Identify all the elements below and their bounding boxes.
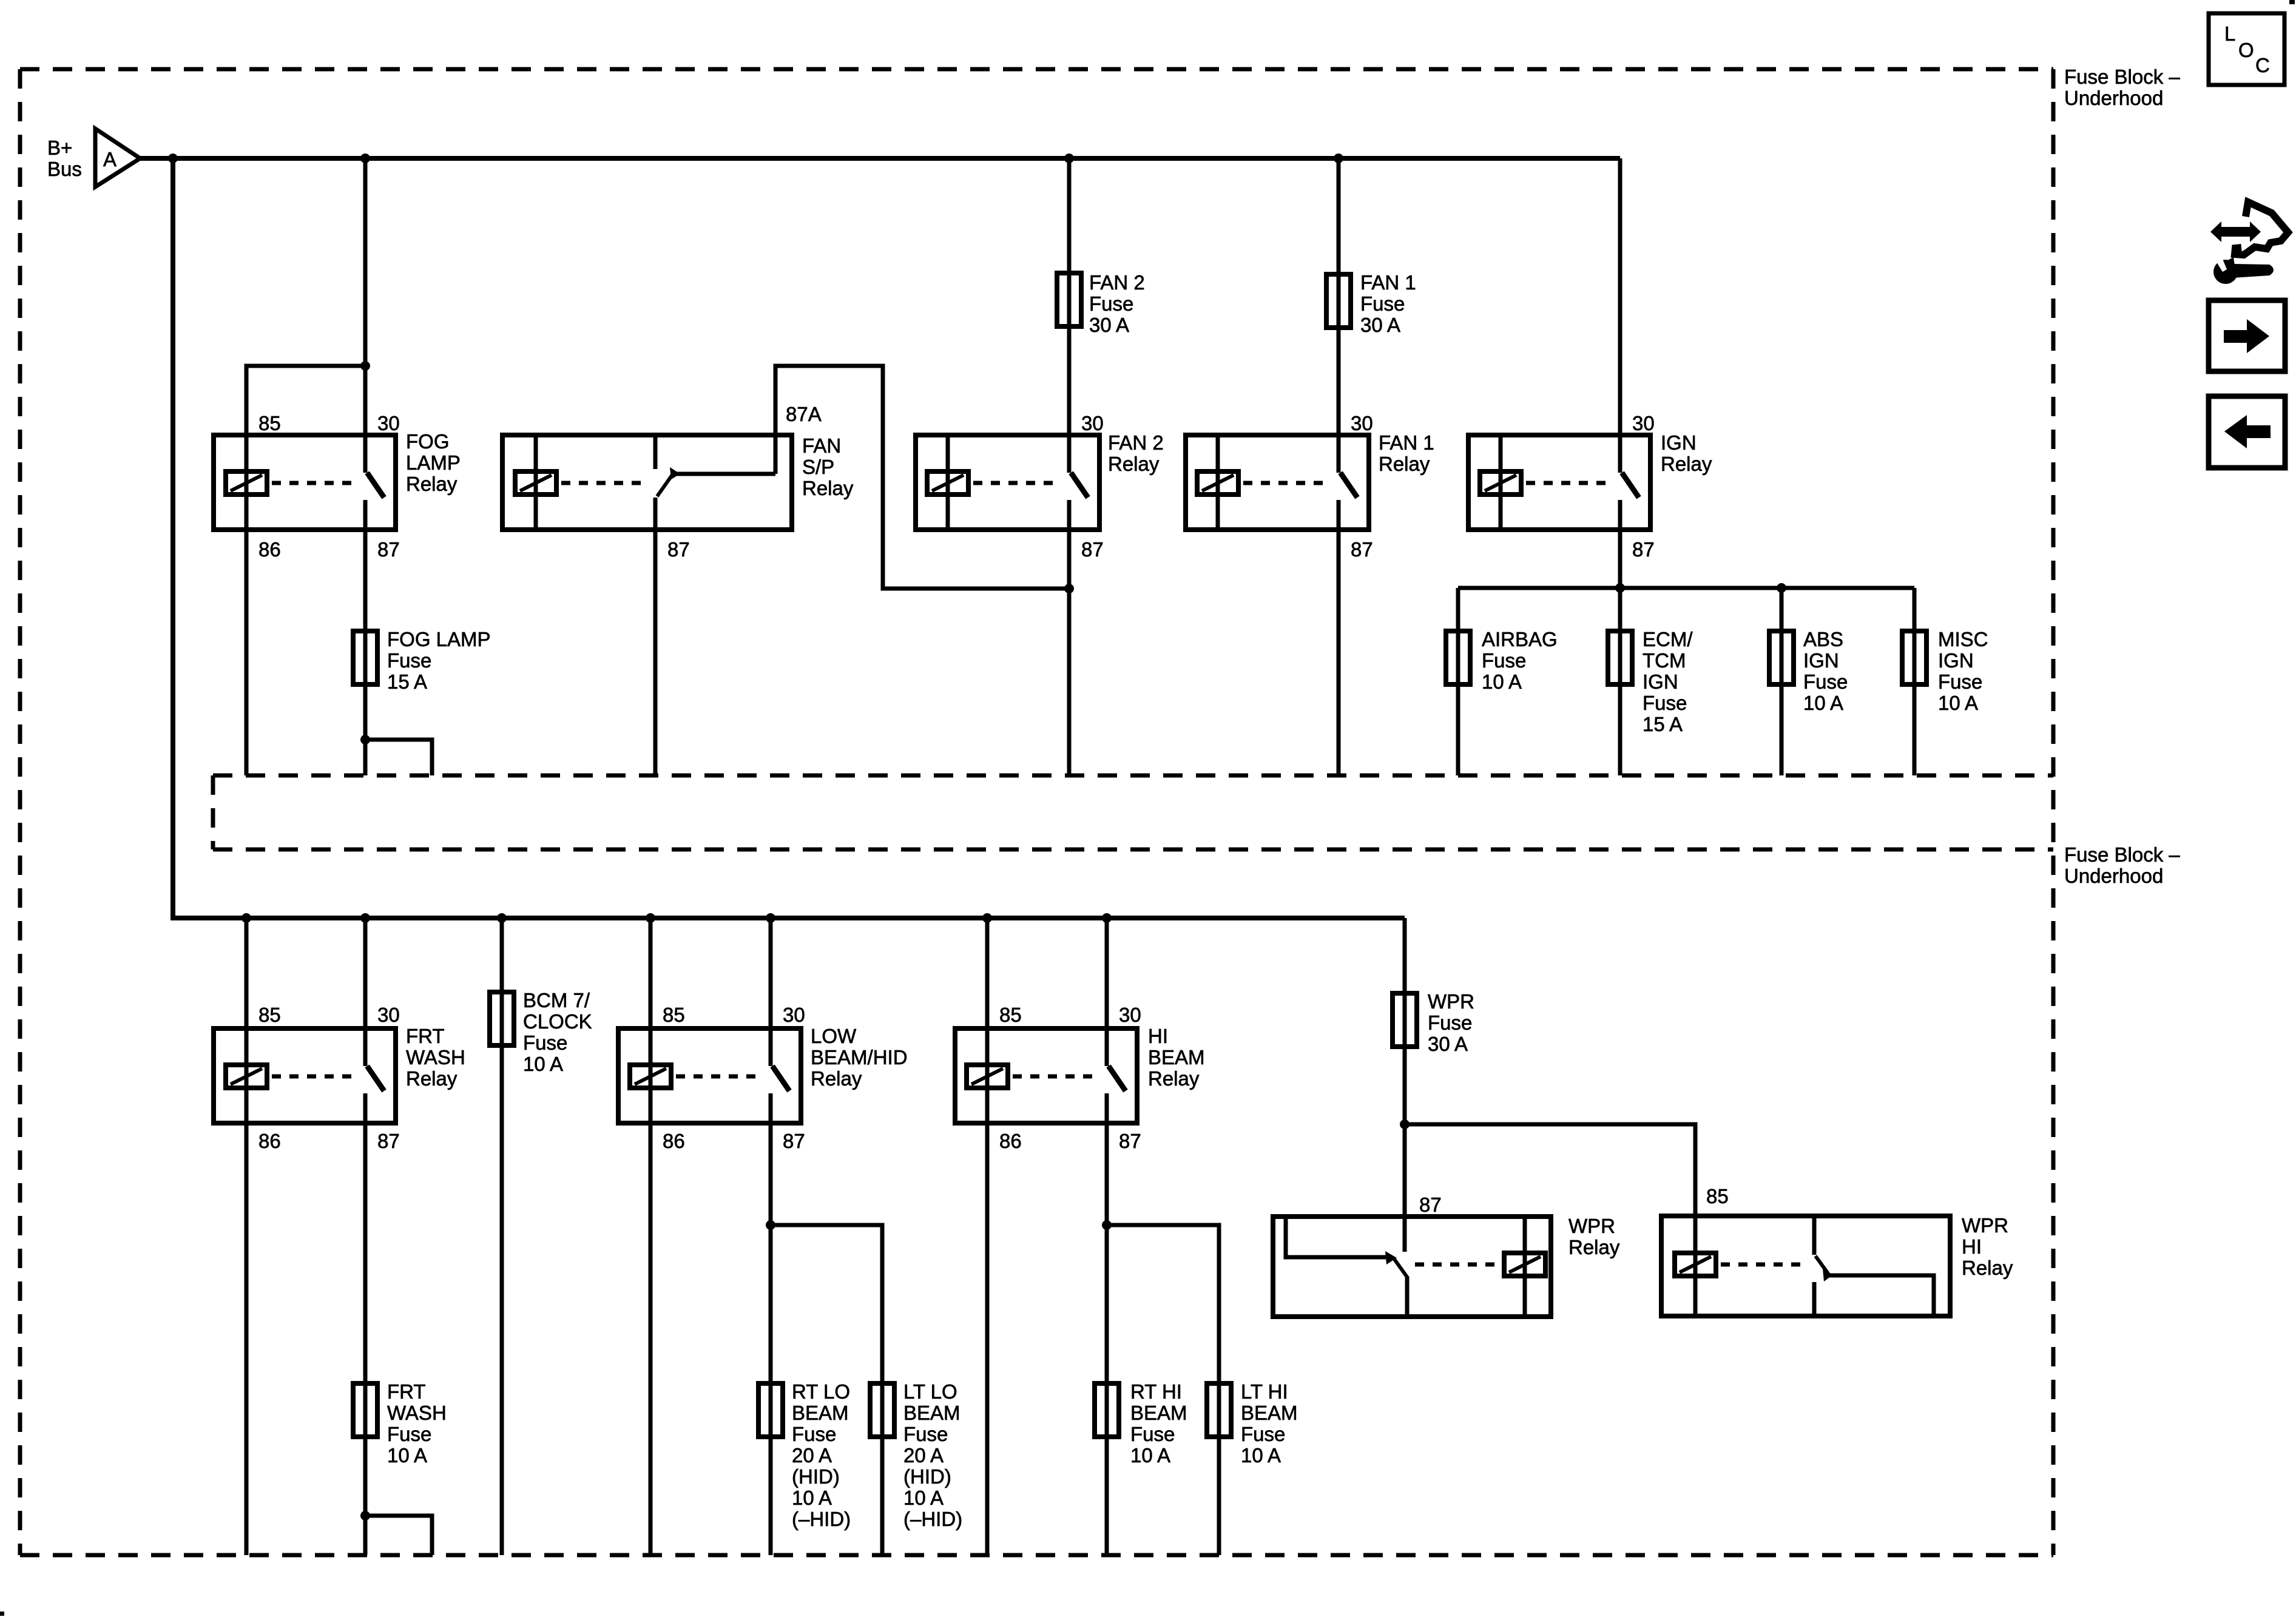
svg-text:BEAM: BEAM	[1241, 1402, 1298, 1424]
svg-text:10 A: 10 A	[903, 1487, 944, 1509]
svg-text:O: O	[2238, 39, 2254, 61]
svg-text:30: 30	[1351, 412, 1373, 434]
fuse WPR 30A	[1393, 993, 1417, 1047]
wire LOW pin85 drop	[649, 918, 653, 1028]
label FRT WASH Fuse 10 A	[387, 1380, 447, 1467]
label Fuse Block - Underhood (bottom)	[2064, 843, 2180, 887]
svg-text:Fuse: Fuse	[1089, 292, 1133, 315]
relay IGN	[1468, 435, 1650, 530]
node junction bus1-FAN2fuse	[1064, 154, 1074, 163]
svg-text:FRT: FRT	[406, 1025, 445, 1047]
node junction FRTWASH fuse out	[360, 1511, 370, 1521]
svg-text:30 A: 30 A	[1428, 1033, 1468, 1055]
wire FOG pin30 drop from bus	[363, 158, 368, 435]
relay FAN S/P	[502, 435, 792, 530]
svg-text:10 A: 10 A	[1803, 692, 1843, 714]
svg-text:Fuse Block –: Fuse Block –	[2064, 843, 2180, 866]
wire FRTWASH pin86 drop	[245, 1122, 249, 1555]
wire IGN pin30 drop from bus end	[1618, 158, 1622, 435]
fuse RT LO BEAM	[758, 1383, 783, 1437]
svg-text:10 A: 10 A	[387, 1444, 427, 1467]
fuse LT LO BEAM	[870, 1383, 894, 1437]
svg-text:IGN: IGN	[1938, 649, 1974, 672]
svg-text:ABS: ABS	[1803, 628, 1843, 650]
wire LOW pin87 drop	[769, 1122, 773, 1555]
wire FAN1 pin87 drop	[1337, 530, 1341, 775]
svg-text:Relay: Relay	[1962, 1257, 2013, 1279]
svg-text:BEAM: BEAM	[1130, 1402, 1187, 1424]
svg-text:85: 85	[258, 412, 281, 434]
svg-text:87: 87	[1081, 538, 1104, 561]
pin 87 FAN S/P	[667, 538, 690, 561]
svg-text:FRT: FRT	[387, 1380, 426, 1403]
svg-text:WPR: WPR	[1962, 1214, 2008, 1237]
pin 85 HI	[999, 1004, 1022, 1026]
power symbol B+ Bus triangle A	[47, 129, 140, 187]
wire FOG pin85 branch	[246, 366, 365, 435]
pin 87 FRTWASH	[377, 1130, 400, 1152]
node junction bus2-HI30	[1102, 913, 1112, 923]
svg-text:30: 30	[1081, 412, 1104, 434]
label RT HI BEAM Fuse 10 A	[1130, 1380, 1187, 1467]
svg-text:85: 85	[258, 1004, 281, 1026]
wire FOG pin87 drop	[363, 530, 368, 775]
pin 30 FRTWASH	[377, 1004, 400, 1026]
svg-text:86: 86	[999, 1130, 1022, 1152]
svg-text:AIRBAG: AIRBAG	[1482, 628, 1558, 650]
svg-text:85: 85	[999, 1004, 1022, 1026]
svg-text:30: 30	[783, 1004, 805, 1026]
label WPR HI Relay	[1962, 1214, 2013, 1279]
fuse BCM 7/CLOCK 10A	[490, 992, 514, 1045]
wire FAN S/P 87A loop	[775, 366, 1069, 589]
svg-text:Underhood: Underhood	[2064, 865, 2163, 887]
label ABS IGN Fuse 10 A	[1803, 628, 1848, 714]
fuse FRT WASH 10A	[353, 1383, 377, 1437]
svg-text:WASH: WASH	[387, 1402, 447, 1424]
label FRT WASH Relay	[406, 1025, 465, 1090]
wire MISC fuse drop	[1913, 588, 1917, 775]
svg-text:BCM 7/: BCM 7/	[523, 989, 590, 1011]
wire AIRBAG fuse drop	[1456, 588, 1460, 775]
svg-text:10 A: 10 A	[1241, 1444, 1281, 1467]
svg-text:Fuse: Fuse	[1360, 292, 1405, 315]
label LT LO BEAM Fuse	[903, 1380, 962, 1530]
svg-text:WASH: WASH	[406, 1046, 465, 1068]
svg-text:(–HID): (–HID)	[792, 1508, 851, 1530]
node junction FOG fuse out branch	[360, 735, 370, 744]
node junction bus1-FOG	[360, 154, 370, 163]
node junction bus2-BCMfuse	[497, 913, 507, 923]
svg-text:BEAM: BEAM	[1148, 1046, 1205, 1068]
svg-text:IGN: IGN	[1803, 649, 1839, 672]
svg-text:BEAM: BEAM	[903, 1402, 961, 1424]
label AIRBAG Fuse 10 A	[1482, 628, 1558, 693]
label Fuse Block - Underhood (top)	[2064, 66, 2180, 109]
pin 85 FOG	[258, 412, 281, 434]
wire HI pin30 drop	[1105, 918, 1109, 1028]
svg-text:TCM: TCM	[1643, 649, 1686, 672]
fuse LT HI BEAM 10A	[1207, 1383, 1231, 1437]
pin 87 HI	[1119, 1130, 1141, 1152]
svg-text:(HID): (HID)	[903, 1465, 951, 1488]
node junction bus2-FRTWASH30	[360, 913, 370, 923]
label FAN 2 Fuse 30 A	[1089, 271, 1145, 336]
fuse MISC IGN 10A	[1902, 631, 1926, 684]
pin 86 HI	[999, 1130, 1022, 1152]
svg-text:Fuse: Fuse	[523, 1031, 567, 1054]
svg-text:Relay: Relay	[406, 473, 458, 495]
svg-text:87: 87	[377, 538, 400, 561]
svg-text:Relay: Relay	[802, 477, 854, 499]
label RT LO BEAM Fuse	[792, 1380, 851, 1530]
svg-text:FOG: FOG	[406, 430, 450, 453]
label FAN S/P Relay	[802, 434, 854, 499]
svg-text:BEAM/HID: BEAM/HID	[811, 1046, 908, 1068]
relay FRT WASH	[214, 1028, 396, 1123]
svg-text:WPR: WPR	[1428, 990, 1474, 1013]
wire FAN2 pin87 drop	[1067, 530, 1072, 775]
node junction bus2-LOW30	[766, 913, 775, 923]
label LT HI BEAM Fuse 10 A	[1241, 1380, 1298, 1467]
node junction bus1-FAN1fuse	[1334, 154, 1343, 163]
icon shift-wrench	[2210, 202, 2288, 284]
svg-text:RT HI: RT HI	[1130, 1380, 1182, 1403]
svg-text:86: 86	[663, 1130, 685, 1152]
svg-text:LT LO: LT LO	[903, 1380, 957, 1403]
svg-text:LAMP: LAMP	[406, 451, 461, 474]
node junction IGN87-dist	[1615, 583, 1625, 593]
icon LOC box	[2209, 13, 2284, 85]
wire FOG fuse branch right	[365, 740, 432, 775]
pin 30 LOW	[783, 1004, 805, 1026]
svg-text:30: 30	[1119, 1004, 1141, 1026]
svg-text:30: 30	[377, 1004, 400, 1026]
pin 87 WPR relay	[1419, 1193, 1442, 1216]
svg-text:20 A: 20 A	[792, 1444, 832, 1467]
label HI BEAM Relay	[1148, 1025, 1205, 1090]
svg-text:Relay: Relay	[811, 1067, 862, 1090]
pin 87 FOG	[377, 538, 400, 561]
node junction FAN2-87A	[1064, 584, 1074, 593]
svg-text:87: 87	[1351, 538, 1373, 561]
svg-text:FOG LAMP: FOG LAMP	[387, 628, 491, 650]
fuse FAN 1 30A	[1326, 274, 1351, 328]
svg-text:10 A: 10 A	[523, 1053, 563, 1075]
svg-text:B+: B+	[47, 137, 72, 159]
svg-text:Fuse: Fuse	[1241, 1423, 1285, 1445]
label WPR Fuse 30 A	[1428, 990, 1474, 1055]
svg-text:15 A: 15 A	[1643, 713, 1683, 735]
wire B+ drop to lower block	[173, 158, 1405, 918]
fuse ABS IGN 10A	[1769, 631, 1794, 684]
svg-text:WPR: WPR	[1568, 1215, 1615, 1237]
wire FRTWASH pin85 drop	[245, 918, 249, 1028]
wire FRTWASH fuse branch right	[365, 1516, 432, 1555]
svg-text:Relay: Relay	[1661, 453, 1712, 475]
wire IGN pin87 drop	[1618, 530, 1622, 775]
wire WPR fuse drop from bus2 end	[1403, 918, 1407, 1252]
svg-text:87A: 87A	[786, 403, 822, 425]
pin 87A FAN S/P	[786, 403, 822, 425]
wire BCM fuse drop	[500, 918, 504, 1555]
svg-text:FAN 1: FAN 1	[1360, 271, 1416, 294]
label WPR Relay	[1568, 1215, 1620, 1258]
pin 30 FAN1	[1351, 412, 1373, 434]
svg-text:30: 30	[1632, 412, 1655, 434]
fuse RT HI BEAM 10A	[1095, 1383, 1119, 1437]
wire FAN2 fuse drop from bus	[1067, 158, 1072, 435]
svg-text:Fuse Block –: Fuse Block –	[2064, 66, 2180, 88]
node junction bus2-LOW85	[646, 913, 655, 923]
relay WPR HI	[1661, 1216, 1950, 1316]
node junction bus2-HI85	[982, 913, 992, 923]
svg-text:HI: HI	[1962, 1235, 1982, 1258]
wire FOG pin86 drop	[245, 530, 249, 775]
svg-text:LT HI: LT HI	[1241, 1380, 1288, 1403]
svg-text:15 A: 15 A	[387, 670, 427, 693]
relay WPR	[1273, 1217, 1551, 1317]
svg-text:Relay: Relay	[1108, 453, 1160, 475]
svg-text:FAN 2: FAN 2	[1089, 271, 1145, 294]
wire IGN fuse distribution bus	[1458, 586, 1914, 590]
svg-text:FAN 2: FAN 2	[1108, 431, 1164, 454]
svg-text:30 A: 30 A	[1360, 314, 1400, 336]
wire HI pin86 drop	[985, 1122, 990, 1555]
label LOW BEAM/HID Relay	[811, 1025, 908, 1090]
pin 87 FAN1	[1351, 538, 1373, 561]
svg-text:87: 87	[783, 1130, 805, 1152]
svg-text:86: 86	[258, 1130, 281, 1152]
svg-text:Fuse: Fuse	[1428, 1011, 1472, 1034]
node junction LOW87 branch	[766, 1220, 775, 1230]
svg-text:Fuse: Fuse	[903, 1423, 948, 1445]
svg-text:86: 86	[258, 538, 281, 561]
wire LOW pin30 drop	[769, 918, 773, 1028]
svg-text:87: 87	[377, 1130, 400, 1152]
pin 86 FOG	[258, 538, 281, 561]
wire FAN1 fuse drop from bus	[1337, 158, 1341, 435]
svg-text:ECM/: ECM/	[1643, 628, 1693, 650]
label FAN 1 Relay	[1379, 431, 1434, 475]
svg-text:C: C	[2255, 54, 2270, 76]
svg-text:Fuse: Fuse	[1643, 692, 1687, 714]
relay HI BEAM	[955, 1028, 1137, 1123]
wire WPR-HI feed	[1405, 1124, 1695, 1264]
fuse ECM/TCM IGN 15A	[1608, 631, 1632, 684]
svg-text:A: A	[103, 148, 116, 170]
icon arrow box left	[2209, 396, 2285, 468]
label MISC IGN Fuse 10 A	[1938, 628, 1988, 714]
svg-text:Relay: Relay	[1148, 1067, 1200, 1090]
svg-text:Fuse: Fuse	[1482, 649, 1526, 672]
label FAN 1 Fuse 30 A	[1360, 271, 1416, 336]
svg-text:Fuse: Fuse	[387, 649, 431, 672]
svg-text:Bus: Bus	[47, 158, 82, 180]
node junction bus2-FRTWASH85	[241, 913, 251, 923]
svg-text:L: L	[2224, 22, 2235, 45]
pin 85 WPR HI relay	[1706, 1185, 1729, 1207]
pin 85 FRTWASH	[258, 1004, 281, 1026]
svg-text:30 A: 30 A	[1089, 314, 1129, 336]
svg-text:RT LO: RT LO	[792, 1380, 850, 1403]
svg-text:85: 85	[663, 1004, 685, 1026]
wire FAN S/P pin87 drop	[653, 530, 658, 775]
svg-text:Fuse: Fuse	[1130, 1423, 1175, 1445]
label FAN 2 Relay	[1108, 431, 1164, 475]
svg-text:CLOCK: CLOCK	[523, 1010, 592, 1033]
label ECM TCM IGN Fuse 15 A	[1643, 628, 1693, 735]
pin 87 FAN2	[1081, 538, 1104, 561]
svg-text:FAN 1: FAN 1	[1379, 431, 1434, 454]
fuse AIRBAG 10A	[1446, 631, 1470, 684]
node junction FOG 85 branch	[360, 361, 370, 371]
fuse FAN 2 30A	[1057, 273, 1081, 326]
pin 87 IGN	[1632, 538, 1655, 561]
svg-text:Underhood: Underhood	[2064, 87, 2163, 109]
wire HI pin87 drop	[1105, 1122, 1109, 1555]
label FOG LAMP Relay	[406, 430, 461, 495]
wire HI pin85 drop	[985, 918, 990, 1028]
svg-text:10 A: 10 A	[1482, 670, 1522, 693]
wire B+ bus horizontal (top)	[140, 156, 1620, 161]
svg-text:20 A: 20 A	[903, 1444, 944, 1467]
pin 87 LOW	[783, 1130, 805, 1152]
svg-text:Fuse: Fuse	[1938, 670, 1982, 693]
svg-text:87: 87	[1119, 1130, 1141, 1152]
svg-text:Fuse: Fuse	[792, 1423, 836, 1445]
svg-text:10 A: 10 A	[792, 1487, 832, 1509]
node junction ABS-dist	[1777, 583, 1786, 593]
svg-text:10 A: 10 A	[1130, 1444, 1170, 1467]
wire FRTWASH pin30 drop	[363, 918, 368, 1028]
svg-text:Relay: Relay	[1379, 453, 1430, 475]
svg-text:(–HID): (–HID)	[903, 1508, 962, 1530]
svg-text:MISC: MISC	[1938, 628, 1988, 650]
scan artifact top-right corner	[2289, 0, 2295, 4]
pin 86 FRTWASH	[258, 1130, 281, 1152]
svg-text:Fuse: Fuse	[1803, 670, 1848, 693]
label FOG LAMP Fuse 15 A	[387, 628, 491, 693]
scan artifact bottom-left corner	[0, 1612, 4, 1616]
fuse FOG LAMP 15A	[353, 631, 377, 684]
wire FRTWASH pin87 drop	[363, 1122, 368, 1555]
pin 30 FAN2	[1081, 412, 1104, 434]
svg-text:85: 85	[1706, 1185, 1729, 1207]
relay FOG LAMP (K1)	[214, 435, 396, 530]
pin 30 IGN	[1632, 412, 1655, 434]
svg-text:IGN: IGN	[1643, 670, 1678, 693]
svg-text:BEAM: BEAM	[792, 1402, 849, 1424]
fuse block box 2 (bottom) dashed border	[20, 775, 2053, 1555]
icon arrow box right	[2209, 300, 2285, 371]
relay FAN 1	[1186, 435, 1369, 530]
node junction HI87 branch	[1102, 1220, 1112, 1230]
svg-text:FAN: FAN	[802, 434, 841, 457]
relay LOW BEAM/HID	[618, 1028, 801, 1123]
pin 85 LOW	[663, 1004, 685, 1026]
svg-text:IGN: IGN	[1661, 431, 1697, 454]
wire ABS fuse drop	[1780, 588, 1784, 775]
svg-text:Relay: Relay	[406, 1067, 458, 1090]
pin 30 HI	[1119, 1004, 1141, 1026]
label IGN Relay	[1661, 431, 1712, 475]
wire HI87 branch to LT fuse	[1107, 1225, 1219, 1555]
svg-text:87: 87	[1419, 1193, 1442, 1216]
pin 30 FOG	[377, 412, 400, 434]
svg-text:Fuse: Fuse	[387, 1423, 431, 1445]
svg-text:LOW: LOW	[811, 1025, 857, 1047]
node junction WPR split	[1400, 1119, 1410, 1129]
pin 86 LOW	[663, 1130, 685, 1152]
svg-text:87: 87	[667, 538, 690, 561]
relay FAN 2	[916, 435, 1099, 530]
wire LOW87 branch to LT fuse	[771, 1225, 882, 1555]
svg-text:S/P: S/P	[802, 456, 834, 478]
svg-text:Relay: Relay	[1568, 1236, 1620, 1258]
svg-text:30: 30	[377, 412, 400, 434]
svg-text:87: 87	[1632, 538, 1655, 561]
label BCM 7 CLOCK Fuse 10 A	[523, 989, 592, 1075]
svg-text:HI: HI	[1148, 1025, 1168, 1047]
wire LOW pin86 drop	[649, 1122, 653, 1555]
svg-text:(HID): (HID)	[792, 1465, 840, 1488]
node junction bus1-B+drop	[168, 154, 178, 163]
svg-text:10 A: 10 A	[1938, 692, 1978, 714]
